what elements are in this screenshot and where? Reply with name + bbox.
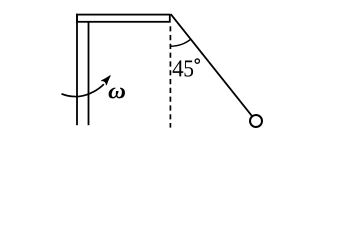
horizontal arm (double-line bar) bbox=[77, 15, 170, 22]
45 degree label: digit 4 bbox=[173, 60, 184, 76]
dashed vertical reference line bbox=[169, 26, 171, 127]
omega label bbox=[109, 88, 125, 99]
45 degree label: digit 5 bbox=[184, 60, 193, 76]
rotation arrow arc bbox=[62, 84, 104, 96]
vertical shaft left line bbox=[76, 14, 78, 126]
ball (bob) bbox=[250, 115, 262, 127]
degree symbol bbox=[195, 59, 199, 63]
rotation arrowhead bbox=[101, 75, 110, 85]
vertical shaft right line bbox=[88, 22, 90, 125]
string (diagonal rod to ball) bbox=[171, 14, 253, 116]
angle arc (45 degrees) bbox=[171, 39, 191, 46]
